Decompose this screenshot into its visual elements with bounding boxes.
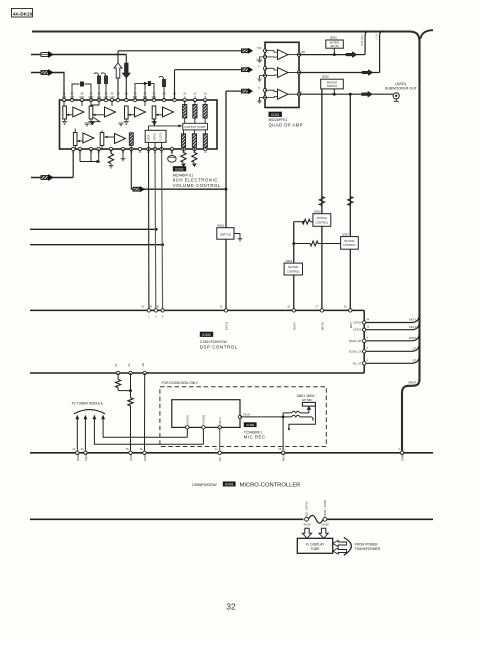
svg-text:SDO4↔SO30: SDO4↔SO30 [323, 500, 327, 517]
svg-text:OUTPUT PORT: OUTPUT PORT [184, 125, 206, 129]
svg-text:EXT-B: EXT-B [225, 322, 229, 330]
svg-text:IC460: IC460 [246, 423, 254, 427]
svg-text:ST: ST [413, 359, 417, 363]
svg-text:Q502: Q502 [322, 75, 329, 79]
svg-text:SWITCH: SWITCH [220, 232, 231, 236]
svg-text:MUTING: MUTING [344, 239, 354, 243]
svg-text:M62446FP E1: M62446FP E1 [173, 173, 194, 177]
svg-text:IC201: IC201 [175, 167, 184, 171]
svg-text:CONTROL: CONTROL [315, 220, 328, 224]
svg-text:SUB-R(FL): SUB-R(FL) [361, 33, 364, 46]
svg-text:Q302: Q302 [314, 209, 321, 213]
svg-text:CONTROL: CONTROL [343, 243, 356, 247]
svg-text:TV TUNER MODULE: TV TUNER MODULE [72, 401, 104, 405]
svg-text:4A-DK10: 4A-DK10 [13, 11, 33, 16]
svg-text:VOLUME CONTROL: VOLUME CONTROL [173, 183, 221, 188]
svg-text:7(N): 7(N) [257, 47, 262, 50]
svg-text:DATA: DATA [409, 336, 417, 340]
svg-text:1(R): 1(R) [301, 51, 306, 54]
svg-text:FL DISPLAY: FL DISPLAY [306, 542, 326, 546]
svg-text:VIN1: VIN1 [129, 454, 133, 461]
svg-text:LIN: LIN [62, 95, 66, 99]
svg-text:FROM POWER: FROM POWER [355, 542, 379, 546]
svg-text:CONTROL: CONTROL [287, 269, 300, 273]
svg-text:MICRO-CONTROLLER: MICRO-CONTROLLER [240, 482, 301, 488]
svg-text:SUBWOOFER OUT: SUBWOOFER OUT [385, 87, 418, 91]
svg-text:32: 32 [226, 602, 236, 612]
svg-text:C3986F0002SW: C3986F0002SW [192, 483, 218, 487]
svg-text:CKF15: CKF15 [353, 328, 362, 332]
svg-text:QUAD OP AMP: QUAD OP AMP [269, 122, 303, 127]
svg-text:EC: EC [218, 457, 222, 461]
svg-text:MUTING: MUTING [317, 216, 327, 220]
svg-text:IC450: IC450 [202, 333, 211, 337]
svg-text:B10↔KEY12: B10↔KEY12 [305, 501, 309, 517]
svg-text:MUTING: MUTING [288, 265, 298, 269]
svg-text:MIC A: MIC A [218, 417, 222, 425]
svg-text:IC401: IC401 [225, 482, 234, 486]
svg-text:MUTING: MUTING [327, 81, 337, 85]
svg-text:TUBE: TUBE [310, 547, 320, 551]
svg-text:HP MIC: HP MIC [302, 398, 313, 402]
svg-text:IC301: IC301 [271, 113, 280, 117]
svg-text:FIL IN: FIL IN [244, 414, 251, 417]
svg-text:SQUN: SQUN [84, 453, 88, 461]
svg-text:KEY2: KEY2 [409, 325, 417, 329]
svg-text:FOR DC5/DC6GN ONLY: FOR DC5/DC6GN ONLY [162, 381, 199, 385]
svg-text:CLOCK: CLOCK [160, 132, 163, 141]
svg-text:MICIN: MICIN [282, 453, 286, 461]
svg-text:Q501: Q501 [330, 36, 337, 40]
svg-text:C2860F0800SW: C2860F0800SW [200, 340, 227, 344]
svg-text:GN01: GN01 [217, 224, 225, 228]
svg-text:ECHOA: ECHOA [186, 415, 190, 425]
svg-text:L-CH: L-CH [376, 34, 379, 40]
svg-text:SRMT: SRMT [401, 453, 405, 461]
svg-text:MIC REC: MIC REC [244, 434, 266, 439]
svg-text:44-50: 44-50 [303, 523, 311, 527]
svg-text:CIN: CIN [110, 95, 115, 99]
svg-text:CKF16: CKF16 [353, 321, 362, 325]
svg-text:KEY1: KEY1 [409, 318, 417, 322]
svg-text:Q303: Q303 [342, 233, 349, 237]
svg-text:12/16: 12/16 [256, 58, 263, 61]
svg-text:SCSN_CK: SCSN_CK [349, 349, 362, 353]
svg-text:MUTE: MUTE [321, 322, 325, 330]
svg-text:X2: X2 [127, 363, 131, 367]
svg-text:VINN: VINN [143, 454, 147, 461]
svg-text:BUSY: BUSY [292, 322, 296, 330]
svg-text:RIN: RIN [80, 95, 85, 99]
svg-text:SRMT: SRMT [408, 380, 417, 384]
svg-text:DDAN_BT: DDAN_BT [349, 339, 362, 343]
svg-text:RL_ST: RL_ST [353, 361, 362, 365]
svg-text:UP/DN: UP/DN [154, 133, 157, 141]
svg-text:ECHOB: ECHOB [202, 415, 206, 425]
svg-text:Q304: Q304 [286, 259, 293, 263]
svg-text:SWITCH: SWITCH [327, 84, 337, 88]
svg-text:DATA: DATA [148, 134, 151, 141]
svg-text:TRANSFORMER: TRANSFORMER [355, 547, 381, 551]
svg-text:VD: VD [141, 363, 145, 367]
svg-text:BGM1: BGM1 [76, 453, 80, 461]
svg-text:X1: X1 [114, 363, 118, 367]
svg-text:DSP CONTROL: DSP CONTROL [200, 345, 238, 350]
svg-text:50-58: 50-58 [321, 523, 329, 527]
svg-text:(A202): (A202) [395, 82, 406, 86]
svg-text:CK: CK [412, 347, 416, 351]
svg-text:SW (R): SW (R) [330, 45, 338, 48]
